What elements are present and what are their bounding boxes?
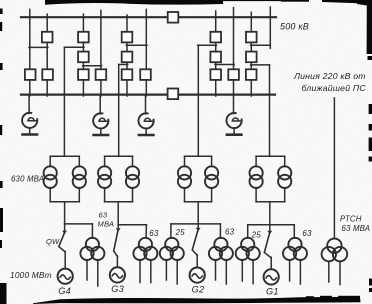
svg-text:Линия 220 кВ от: Линия 220 кВ от [293, 71, 366, 81]
svg-text:63: 63 [225, 228, 235, 237]
svg-text:63: 63 [302, 229, 312, 238]
svg-text:630 МВА: 630 МВА [11, 175, 44, 184]
svg-text:МВА: МВА [98, 219, 115, 228]
svg-text:63: 63 [99, 211, 108, 220]
svg-text:500 кВ: 500 кВ [280, 22, 309, 32]
svg-text:25: 25 [175, 228, 186, 237]
svg-text:G2: G2 [192, 284, 205, 294]
svg-text:QW: QW [46, 237, 60, 246]
svg-text:G4: G4 [58, 286, 71, 296]
svg-text:63: 63 [149, 229, 159, 238]
svg-text:РТСН: РТСН [340, 214, 362, 223]
svg-text:1000 МВт: 1000 МВт [10, 270, 52, 280]
svg-text:G3: G3 [111, 284, 124, 294]
svg-text:G1: G1 [266, 286, 279, 296]
svg-text:ближайшей ПС: ближайшей ПС [302, 83, 367, 93]
svg-text:63 МВА: 63 МВА [342, 224, 371, 233]
svg-text:25: 25 [251, 231, 262, 240]
